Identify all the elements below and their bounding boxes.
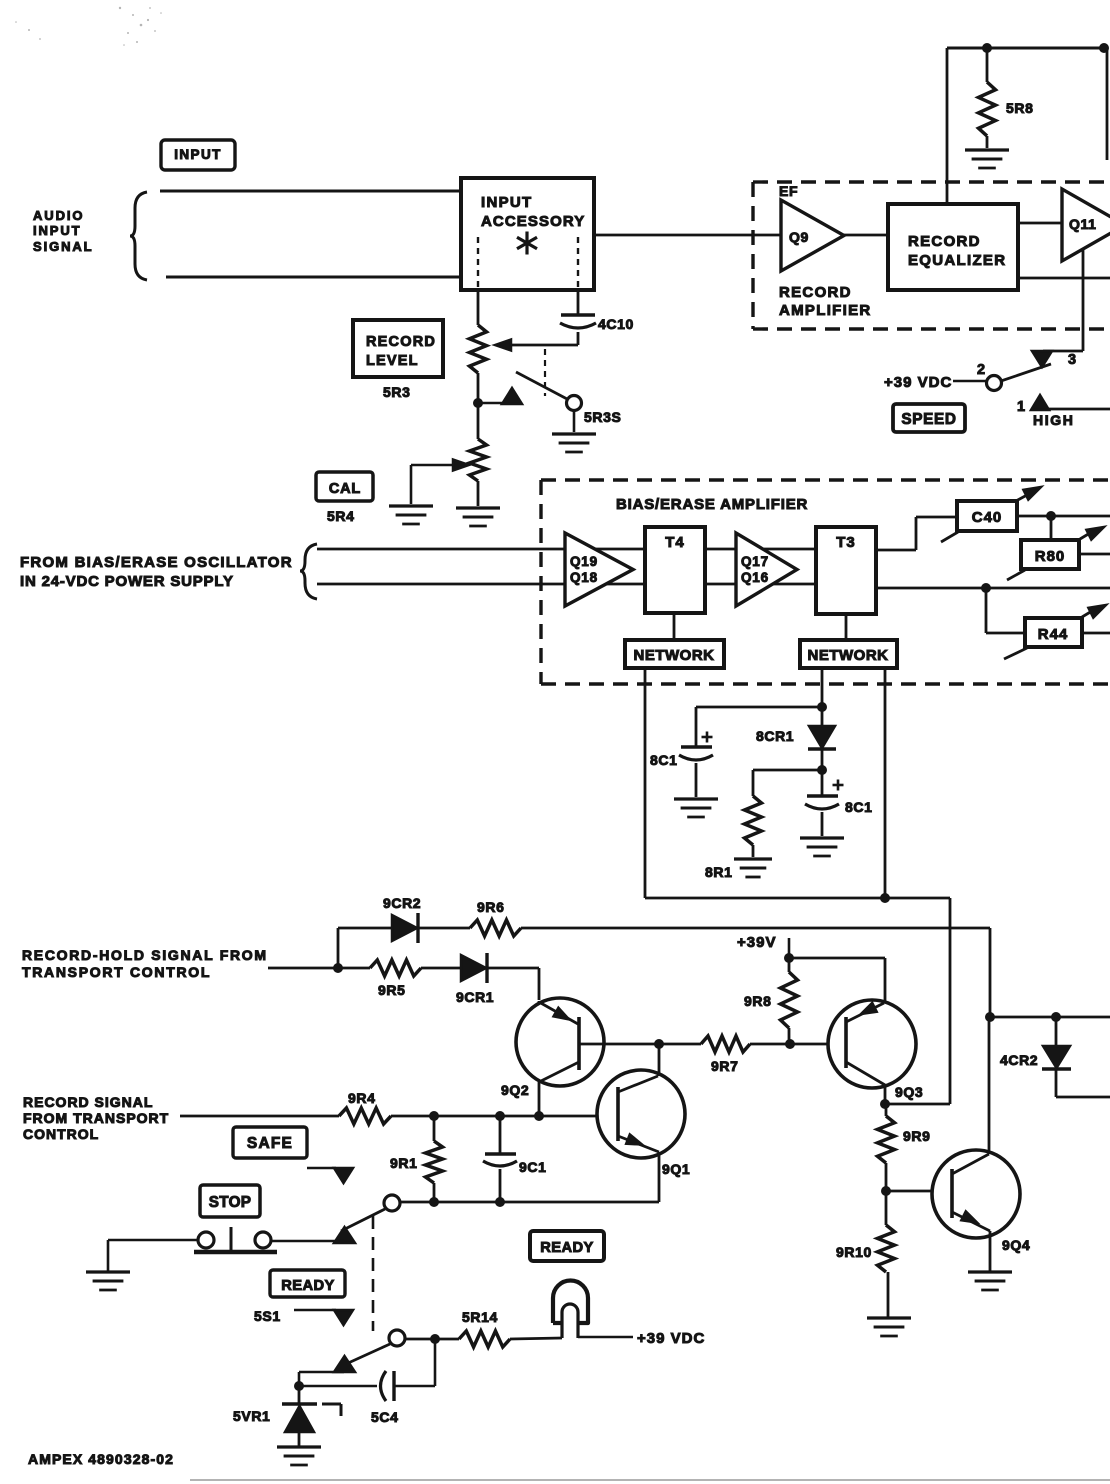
svg-text:+39 VDC: +39 VDC bbox=[637, 1330, 705, 1347]
svg-text:9R9: 9R9 bbox=[903, 1128, 930, 1144]
transistor 9Q2 bbox=[501, 998, 604, 1098]
wire left network down bbox=[644, 668, 647, 898]
block record equalizer bbox=[888, 204, 1018, 290]
op-amp Q9 bbox=[781, 200, 844, 271]
node junction dot 9R8 bottom bbox=[785, 1039, 795, 1049]
node RECORD SIGNAL label bbox=[23, 1094, 169, 1142]
wire +39VDC to pole bbox=[953, 380, 986, 383]
svg-text:5R14: 5R14 bbox=[462, 1309, 498, 1325]
wire 9Q3 emitter down bbox=[884, 1085, 887, 1104]
node junction dot rail bbox=[880, 893, 890, 903]
node switch contact 1 triangle bbox=[1031, 395, 1049, 410]
capacitor 5C4 bbox=[299, 1340, 435, 1425]
brace audio input bbox=[130, 192, 147, 280]
svg-text:INPUT: INPUT bbox=[174, 147, 222, 162]
svg-text:8CR1: 8CR1 bbox=[756, 728, 794, 744]
transistor 9Q3 bbox=[828, 1000, 923, 1100]
wire HIGH line bbox=[1049, 408, 1110, 411]
svg-text:5R8: 5R8 bbox=[1006, 100, 1033, 116]
node junction dot record-hold bbox=[333, 963, 343, 973]
node switch contact 3 triangle bbox=[1032, 351, 1052, 367]
switch stop pushbutton bbox=[194, 1227, 277, 1252]
ground 9R10 bbox=[867, 1318, 911, 1336]
node 5S1 upper pole bbox=[384, 1195, 400, 1211]
ground stop bbox=[86, 1272, 130, 1290]
diode 4CR2 bbox=[1000, 1017, 1110, 1097]
wire 5R3S pole to ground bbox=[573, 410, 576, 432]
svg-text:SPEED: SPEED bbox=[901, 411, 956, 428]
svg-text:5VR1: 5VR1 bbox=[233, 1408, 270, 1424]
svg-text:8C1: 8C1 bbox=[650, 752, 677, 768]
node junction dot 9R9 bottom bbox=[881, 1186, 891, 1196]
node SPEED label bbox=[893, 404, 965, 432]
svg-text:NETWORK: NETWORK bbox=[634, 647, 715, 664]
brace bias input bbox=[300, 544, 317, 599]
wire 5R3 to 5R4 bbox=[477, 403, 480, 439]
svg-text:FROM BIAS/ERASE OSCILLATOR: FROM BIAS/ERASE OSCILLATOR bbox=[20, 554, 293, 571]
wire Q9 to record equalizer bbox=[844, 234, 888, 237]
label 1 bbox=[1017, 399, 1026, 415]
label 5S1 bbox=[254, 1308, 281, 1324]
svg-text:NETWORK: NETWORK bbox=[808, 647, 889, 664]
wire audio input top bbox=[160, 190, 461, 193]
wire 9Q4 base bbox=[886, 1190, 952, 1193]
resistor 5R8 bbox=[979, 48, 1034, 148]
svg-text:SAFE: SAFE bbox=[247, 1135, 293, 1152]
wire 9Q1 emitter down bbox=[658, 1152, 661, 1202]
svg-text:Q19: Q19 bbox=[570, 554, 598, 569]
label 2 bbox=[977, 362, 986, 378]
node switch contact triangle record bbox=[502, 388, 522, 404]
svg-text:Q17: Q17 bbox=[741, 554, 769, 569]
node CAL label bbox=[316, 472, 373, 501]
wire 9Q2 base east bbox=[579, 1043, 659, 1046]
wire speed switch arm bbox=[1001, 364, 1051, 381]
resistor 8R1 bbox=[745, 796, 762, 857]
wire safe rail bbox=[400, 1201, 659, 1204]
svg-text:9Q1: 9Q1 bbox=[662, 1161, 690, 1177]
wire record signal in bbox=[180, 1115, 339, 1118]
scan speckles bbox=[15, 7, 162, 46]
resistor R44 adjustable bbox=[1004, 605, 1106, 659]
node junction dot 5R8 top bbox=[982, 43, 992, 53]
resistor 9R9 bbox=[878, 1104, 931, 1190]
node junction dot C40-R80 bbox=[1046, 511, 1056, 521]
svg-text:9C1: 9C1 bbox=[519, 1159, 546, 1175]
label +39 VDC bottom bbox=[637, 1330, 705, 1347]
label 3 bbox=[1068, 352, 1077, 368]
wire audio input bottom bbox=[166, 276, 461, 279]
svg-text:9Q3: 9Q3 bbox=[895, 1084, 923, 1100]
svg-text:R80: R80 bbox=[1035, 548, 1066, 565]
wire T4 to network bbox=[673, 613, 676, 640]
node junction dot 9C1 bottom bbox=[495, 1197, 505, 1207]
node junction dot 4CR2 rail left bbox=[985, 1012, 995, 1022]
wire T4 to T3 top bbox=[705, 548, 816, 551]
svg-text:RECORD: RECORD bbox=[779, 284, 852, 301]
svg-text:SIGNAL: SIGNAL bbox=[33, 239, 94, 254]
svg-text:LEVEL: LEVEL bbox=[366, 353, 419, 369]
svg-text:T3: T3 bbox=[836, 534, 856, 551]
label 5R3S bbox=[584, 409, 621, 425]
node 5R3S switch pole bbox=[567, 396, 582, 411]
wire T3 out2 bbox=[876, 587, 1110, 590]
block NETWORK left bbox=[625, 640, 724, 668]
svg-text:Q16: Q16 bbox=[741, 570, 769, 585]
svg-text:9R1: 9R1 bbox=[390, 1155, 417, 1171]
wire 9Q2 collector down bbox=[538, 1082, 541, 1117]
wire +39V to 9Q3 collector bbox=[789, 958, 885, 1002]
node RECORD LEVEL label bbox=[353, 320, 443, 377]
svg-text:RECORD: RECORD bbox=[908, 233, 981, 250]
resistor 9R8 bbox=[744, 958, 798, 1043]
node junction dot 5R3 bottom bbox=[473, 398, 483, 408]
ground 9Q4 bbox=[968, 1272, 1012, 1290]
label 5R3 bbox=[383, 384, 410, 400]
node junction dot 9C1 top bbox=[495, 1111, 505, 1121]
node junction dot R44 bbox=[981, 583, 991, 593]
wire top rail bbox=[947, 47, 1107, 50]
node junction dot 9Q2 collector bbox=[534, 1111, 544, 1121]
capacitor 9C1 bbox=[483, 1116, 546, 1202]
wire top rail drop to equalizer bbox=[946, 48, 949, 204]
svg-text:5C4: 5C4 bbox=[371, 1409, 398, 1425]
svg-text:4CR2: 4CR2 bbox=[1000, 1052, 1038, 1068]
wire T4 to T3 bottom bbox=[705, 583, 816, 586]
label +39 VDC bbox=[884, 374, 952, 391]
svg-text:HIGH: HIGH bbox=[1033, 412, 1074, 428]
node junction dot 9R1 bottom bbox=[429, 1197, 439, 1207]
node junction dot 8c1 left bbox=[817, 702, 827, 712]
wire 5S1 lower arm bbox=[346, 1344, 390, 1364]
diode 9CR2 bbox=[383, 895, 421, 943]
wire 9CR1 to 9Q2 bbox=[487, 968, 539, 1000]
svg-text:ACCESSORY: ACCESSORY bbox=[481, 213, 585, 230]
transformer T4 bbox=[645, 527, 705, 613]
transistor 9Q1 bbox=[597, 1070, 690, 1177]
wire 9Q1 collector up bbox=[658, 1044, 661, 1076]
capacitor 4C10 bbox=[560, 290, 634, 345]
svg-text:Q18: Q18 bbox=[570, 570, 598, 585]
node READY label right bbox=[530, 1231, 604, 1261]
block input accessory bbox=[461, 178, 594, 290]
diode 9CR1 bbox=[456, 953, 494, 1005]
svg-text:IN 24-VDC POWER SUPPLY: IN 24-VDC POWER SUPPLY bbox=[20, 573, 234, 590]
ground 8C1 left bbox=[674, 799, 718, 817]
label 8C1 left bbox=[650, 752, 677, 768]
wire 9R5 to 9CR1 bbox=[421, 967, 461, 970]
svg-text:5R3S: 5R3S bbox=[584, 409, 621, 425]
svg-text:8C1: 8C1 bbox=[845, 799, 872, 815]
wire to 8C1 left bbox=[696, 707, 822, 746]
wire 9R4 to 9Q1 base bbox=[391, 1115, 618, 1118]
node STOP label bbox=[200, 1185, 260, 1217]
svg-text:RECORD-HOLD SIGNAL FROM: RECORD-HOLD SIGNAL FROM bbox=[22, 947, 268, 963]
wire 5S1 upper arm bbox=[341, 1209, 385, 1231]
svg-text:INPUT: INPUT bbox=[33, 223, 82, 238]
ground 8R1 bbox=[705, 859, 772, 880]
bias erase amplifier dashed box bbox=[541, 480, 1110, 684]
wire right network left pin bbox=[821, 668, 824, 726]
wire lamp to +39VDC bbox=[578, 1336, 633, 1339]
svg-text:CONTROL: CONTROL bbox=[23, 1126, 99, 1142]
wire 9R6 east bbox=[521, 927, 990, 930]
svg-text:T4: T4 bbox=[665, 534, 685, 551]
svg-text:9Q4: 9Q4 bbox=[1002, 1237, 1030, 1253]
lamp READY bbox=[553, 1281, 588, 1338]
node junction dot top right bbox=[1099, 43, 1109, 53]
svg-text:READY: READY bbox=[540, 1240, 593, 1256]
wire 9CR2 to 9R6 bbox=[418, 927, 470, 930]
ground 5VR1 bbox=[277, 1447, 321, 1465]
svg-text:5S1: 5S1 bbox=[254, 1308, 281, 1324]
svg-text:9CR2: 9CR2 bbox=[383, 895, 421, 911]
node READY label left bbox=[270, 1270, 345, 1297]
label AMPEX 4890328-02 bbox=[28, 1451, 174, 1467]
svg-text:9R7: 9R7 bbox=[711, 1058, 738, 1074]
node ready position marker bbox=[294, 1310, 353, 1325]
record amplifier dashed box bbox=[753, 182, 1110, 329]
wire R44 output bbox=[1082, 632, 1110, 635]
transistor 9Q4 bbox=[932, 1150, 1030, 1253]
resistor 9R6 bbox=[470, 899, 521, 936]
wire bottom rail bbox=[645, 897, 950, 900]
svg-text:9Q2: 9Q2 bbox=[501, 1082, 529, 1098]
svg-text:STOP: STOP bbox=[209, 1194, 252, 1211]
wire record-hold in bbox=[268, 967, 338, 970]
ground 8C1 right bbox=[800, 838, 844, 856]
svg-text:CAL: CAL bbox=[329, 481, 361, 497]
node RECORD-HOLD label bbox=[22, 947, 268, 980]
capacitor C40 adjustable bbox=[941, 487, 1041, 542]
svg-text:AUDIO: AUDIO bbox=[33, 208, 84, 223]
wire 4CR2 rail bbox=[990, 1016, 1110, 1019]
op-amp Q11 bbox=[1062, 189, 1110, 261]
wire 9R6 drop bbox=[989, 928, 992, 1017]
svg-text:5R3: 5R3 bbox=[383, 384, 410, 400]
svg-text:AMPLIFIER: AMPLIFIER bbox=[779, 302, 872, 319]
label 8C1 right bbox=[845, 799, 872, 815]
wire 4C10 to wiper bbox=[511, 344, 578, 347]
node junction dot 9R1 top bbox=[429, 1111, 439, 1121]
wire branch up to 9CR2 bbox=[338, 928, 392, 968]
op-amp Q17 Q16 bbox=[736, 533, 797, 606]
node junction dot 9Q2 base bbox=[654, 1039, 664, 1049]
wire +39V stub bbox=[788, 938, 791, 958]
svg-text:9CR1: 9CR1 bbox=[456, 989, 494, 1005]
svg-text:RECORD SIGNAL: RECORD SIGNAL bbox=[23, 1094, 153, 1110]
node AUDIO INPUT SIGNAL label bbox=[33, 208, 94, 254]
node junction dot 4CR2 bbox=[1051, 1012, 1061, 1022]
zener 5VR1 bbox=[233, 1386, 317, 1446]
node SAFE label bbox=[233, 1127, 307, 1158]
svg-text:3: 3 bbox=[1068, 352, 1077, 368]
svg-text:9R5: 9R5 bbox=[378, 982, 405, 998]
resistor 9R7 bbox=[659, 1036, 846, 1074]
wire 9Q4 collector up bbox=[988, 1017, 991, 1154]
wire lower contact to node bbox=[299, 1372, 344, 1386]
svg-text:9R10: 9R10 bbox=[836, 1244, 872, 1260]
svg-text:EQUALIZER: EQUALIZER bbox=[908, 252, 1006, 269]
node junction dot 9Q3 emitter bbox=[880, 1099, 890, 1109]
svg-text:R44: R44 bbox=[1038, 626, 1069, 643]
wire 5R3 to junction bbox=[477, 373, 480, 403]
node safe position marker bbox=[307, 1168, 353, 1183]
wire right network right pin bbox=[884, 668, 887, 898]
resistor 9R5 bbox=[338, 960, 421, 998]
node 5S1 upper contact triangle bbox=[334, 1227, 355, 1243]
label HIGH bbox=[1033, 412, 1074, 428]
wire 9Q4 emitter ground bbox=[989, 1231, 992, 1271]
svg-text:9R4: 9R4 bbox=[348, 1090, 375, 1106]
wire to R44 bbox=[986, 588, 1025, 633]
svg-text:INPUT: INPUT bbox=[481, 194, 533, 211]
wire 5R4 to ground bbox=[477, 481, 480, 506]
wire cal to ground bbox=[410, 465, 413, 504]
svg-text:5R4: 5R4 bbox=[327, 508, 354, 524]
wire T3 out1 bbox=[876, 517, 957, 550]
wire bias input bottom bbox=[317, 583, 645, 586]
svg-text:+39 VDC: +39 VDC bbox=[884, 374, 952, 391]
wire 5R3S switch arm bbox=[516, 372, 569, 400]
resistor 5R14 bbox=[459, 1309, 510, 1347]
wire dashed input accessory left pin bbox=[477, 237, 479, 290]
svg-text:READY: READY bbox=[281, 1278, 334, 1294]
svg-text:Q11: Q11 bbox=[1069, 216, 1097, 232]
svg-text:4C10: 4C10 bbox=[598, 316, 634, 332]
label BIAS/ERASE AMPLIFIER bbox=[616, 496, 808, 513]
wire Q11 output drop bbox=[1043, 250, 1083, 351]
svg-text:EF: EF bbox=[779, 183, 798, 199]
wire input accessory to Q9 bbox=[594, 234, 781, 237]
svg-text:1: 1 bbox=[1017, 399, 1026, 415]
node 5VR1 bracket mark bbox=[322, 1404, 341, 1416]
ground 5R8 bbox=[965, 150, 1009, 168]
node speed switch pole bbox=[987, 376, 1002, 391]
wire right edge drop bbox=[1106, 48, 1109, 160]
svg-text:8R1: 8R1 bbox=[705, 864, 732, 880]
block NETWORK right bbox=[800, 640, 897, 668]
ground CAL wiper bbox=[389, 506, 433, 524]
wire rail right drop bbox=[885, 898, 950, 1104]
node 5R4 wiper arrow bbox=[411, 460, 469, 471]
wire C40 output bbox=[1017, 515, 1110, 518]
svg-text:2: 2 bbox=[977, 362, 986, 378]
node 5S1 lower pole bbox=[389, 1330, 405, 1346]
label EF bbox=[779, 183, 798, 199]
node 5S1 lower contact triangle bbox=[334, 1356, 355, 1372]
wire junction stub bbox=[478, 402, 504, 405]
ground 5R4 bbox=[456, 508, 500, 526]
wire dashed 5R3S link bbox=[544, 349, 546, 396]
wire dashed 5S1 gang link bbox=[372, 1216, 375, 1331]
svg-text:RECORD: RECORD bbox=[366, 334, 436, 350]
wire bias input top bbox=[317, 548, 645, 551]
wire accessory to 5R3 bbox=[477, 290, 480, 325]
node junction dot 8CR1 cathode bbox=[817, 765, 827, 775]
node junction dot 5R14 bbox=[430, 1334, 440, 1344]
bottom scan line bbox=[190, 1479, 1110, 1481]
wire T3 to network bbox=[845, 614, 848, 640]
resistor 9R1 bbox=[390, 1116, 443, 1202]
wire stop button to contact bbox=[271, 1240, 344, 1243]
node 5R3 wiper arrow bbox=[495, 340, 511, 351]
diode 8CR1 bbox=[756, 726, 836, 770]
resistor 5R3 potentiometer bbox=[470, 325, 487, 373]
label RECORD AMPLIFIER bbox=[779, 284, 872, 319]
wire record equalizer lower output bbox=[1018, 277, 1110, 280]
transformer T3 bbox=[816, 527, 876, 614]
wire R80 output bbox=[1079, 553, 1110, 556]
wire pole to 5R14 bbox=[405, 1338, 459, 1341]
resistor R80 adjustable bbox=[1007, 527, 1104, 580]
wire C40 to R80 bbox=[1050, 516, 1053, 540]
svg-text:+39V: +39V bbox=[737, 934, 776, 951]
svg-text:9R6: 9R6 bbox=[477, 899, 504, 915]
op-amp Q19 Q18 bbox=[565, 533, 633, 606]
node junction dot 5VR1 bbox=[294, 1381, 304, 1391]
wire dashed input accessory right pin bbox=[577, 237, 579, 290]
label 5R4 bbox=[327, 508, 354, 524]
wire to 8R1 bbox=[753, 770, 822, 796]
svg-text:9R8: 9R8 bbox=[744, 993, 771, 1009]
node INPUT label bbox=[161, 140, 235, 170]
node junction dot +39V bbox=[784, 953, 794, 963]
svg-text:FROM TRANSPORT: FROM TRANSPORT bbox=[23, 1110, 169, 1126]
svg-text:C40: C40 bbox=[972, 509, 1003, 526]
svg-text:BIAS/ERASE AMPLIFIER: BIAS/ERASE AMPLIFIER bbox=[616, 496, 808, 513]
svg-text:TRANSPORT CONTROL: TRANSPORT CONTROL bbox=[22, 964, 211, 980]
resistor 9R10 bbox=[836, 1191, 895, 1317]
resistor 9R4 bbox=[339, 1090, 391, 1124]
capacitor 8C1 left bbox=[679, 732, 713, 798]
capacitor 8C1 right bbox=[805, 770, 844, 836]
node FROM BIAS/ERASE OSCILLATOR label bbox=[20, 554, 293, 590]
resistor 5R4 potentiometer bbox=[470, 439, 487, 481]
ground 5R3S bbox=[552, 434, 596, 452]
wire record equalizer to Q11 bbox=[1018, 222, 1062, 225]
svg-text:AMPEX 4890328-02: AMPEX 4890328-02 bbox=[28, 1451, 174, 1467]
wire 5R14 to lamp bbox=[510, 1338, 562, 1339]
wire stop to ground bbox=[108, 1240, 198, 1271]
label +39V bbox=[737, 934, 776, 951]
svg-text:Q9: Q9 bbox=[789, 229, 809, 245]
